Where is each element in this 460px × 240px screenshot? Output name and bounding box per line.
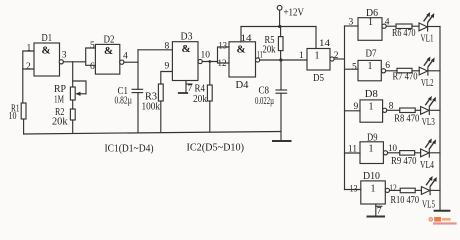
svg-text:D3: D3	[181, 31, 193, 43]
svg-text:0.022µ: 0.022µ	[255, 96, 274, 107]
gate D2	[95, 34, 124, 75]
wire D10 out	[390, 189, 401, 191]
wire to R4	[209, 62, 211, 86]
svg-text:VL4: VL4	[420, 160, 435, 171]
resistor R9	[391, 151, 417, 167]
resistor R2	[52, 107, 75, 128]
ground symbol under C8	[273, 140, 291, 142]
svg-text:20k: 20k	[193, 94, 208, 105]
gate D6	[358, 7, 386, 40]
wire R6 to LED	[412, 25, 419, 27]
wire bus to D9	[345, 152, 361, 154]
wire C8 to ground	[280, 93, 282, 141]
wire R4 to rail	[209, 101, 211, 132]
wire node to C8	[280, 60, 282, 90]
svg-text:10: 10	[9, 111, 17, 122]
svg-text:10: 10	[201, 51, 211, 61]
wire D4 output node	[260, 59, 307, 61]
svg-text:6: 6	[90, 62, 95, 72]
svg-text:R9 470: R9 470	[391, 156, 417, 167]
svg-text:3: 3	[62, 51, 67, 61]
ground rail bottom left	[24, 132, 281, 135]
wire D4 pin 14 to rail	[240, 27, 242, 42]
ground symbol right rail	[435, 210, 450, 212]
svg-text:20k: 20k	[52, 117, 68, 128]
wire rail to D5 pin 14	[315, 27, 317, 49]
wire D6 out	[386, 25, 396, 27]
svg-text:1: 1	[27, 44, 32, 54]
svg-text:7: 7	[377, 206, 382, 216]
node R4 junction	[208, 60, 211, 63]
svg-text:R6 470: R6 470	[392, 28, 416, 39]
wire R2 to rail	[72, 120, 74, 133]
wire bus to D8	[345, 110, 361, 112]
junction dot node	[279, 58, 282, 61]
wire to D3 pin 8	[138, 49, 172, 51]
svg-text:D9: D9	[367, 131, 378, 143]
wire R7 to LED	[412, 70, 419, 72]
wire R9 to LED	[415, 152, 421, 154]
svg-text:R8 470: R8 470	[394, 113, 419, 124]
svg-text:100k: 100k	[142, 101, 161, 112]
svg-text:VL3: VL3	[422, 117, 435, 128]
node D1 out to RP	[72, 62, 74, 87]
svg-text:1: 1	[368, 17, 373, 28]
wire C1 node vertical	[137, 50, 139, 90]
wire D1 inputs to R1	[22, 69, 24, 103]
svg-text:0.82µ: 0.82µ	[115, 96, 133, 107]
svg-text:R4: R4	[195, 84, 206, 95]
gate D3	[172, 31, 202, 81]
svg-text:5: 5	[352, 62, 357, 72]
svg-text:D10: D10	[363, 170, 380, 182]
svg-text:1M: 1M	[54, 95, 64, 106]
wire R3 to rail	[160, 101, 162, 132]
svg-text:5: 5	[90, 41, 95, 51]
wire R10 to LED	[415, 189, 421, 191]
svg-text:&: &	[182, 43, 191, 55]
right rail	[439, 27, 441, 211]
bus vertical	[344, 26, 346, 190]
capacitor C8	[255, 85, 287, 107]
wire VL4 to right rail	[429, 152, 440, 154]
gate D5	[307, 49, 334, 85]
D3 pin 7 ground	[179, 81, 193, 94]
potentiometer RP 1M	[54, 81, 86, 106]
LED VL4	[420, 138, 436, 171]
wire D1 output	[63, 61, 85, 63]
resistor R3	[142, 84, 164, 112]
wire R1 to ground rail	[23, 119, 25, 134]
wire R5 to node	[280, 51, 282, 60]
wire D7 out	[386, 70, 397, 72]
resistor R5	[263, 35, 284, 56]
svg-text:14: 14	[241, 34, 252, 44]
svg-text:VL2: VL2	[421, 78, 434, 89]
svg-text:1: 1	[369, 143, 374, 154]
LED VL5	[421, 176, 436, 211]
LED VL2	[419, 57, 434, 89]
wire D1 input bracket	[23, 51, 34, 69]
capacitor C1	[115, 86, 143, 107]
LED VL1	[419, 12, 434, 45]
svg-text:D1: D1	[42, 32, 53, 44]
wire VL1 to right rail	[428, 26, 440, 28]
wire C1 to rail	[137, 93, 139, 133]
svg-text:6: 6	[385, 61, 390, 71]
svg-text:9: 9	[165, 62, 170, 72]
gate D10	[361, 170, 390, 204]
svg-text:D2: D2	[104, 34, 115, 46]
wire VL3 to right rail	[429, 109, 440, 111]
resistor R6	[392, 24, 416, 39]
svg-text:RP: RP	[54, 84, 66, 95]
svg-text:&: &	[104, 45, 113, 57]
wire D9 out	[388, 152, 400, 154]
svg-text:VL1: VL1	[421, 34, 434, 45]
svg-text:1: 1	[368, 61, 373, 72]
gate D1	[34, 32, 63, 76]
resistor R1	[9, 103, 27, 122]
svg-text:8: 8	[165, 42, 170, 52]
svg-text:1: 1	[315, 51, 320, 62]
resistor R7	[393, 68, 418, 82]
wire VL2 to right rail	[428, 70, 440, 72]
svg-text:14: 14	[319, 39, 330, 49]
wire bus to D10	[345, 189, 361, 191]
+12V supply rail	[241, 26, 316, 28]
svg-text:VL5: VL5	[422, 200, 435, 211]
wire D3 pin 9 to R3	[161, 72, 173, 85]
wire D5 output to bus	[334, 58, 344, 60]
wire D4 input bracket	[218, 47, 230, 63]
svg-text:R7 470: R7 470	[393, 71, 418, 82]
svg-text:1: 1	[369, 101, 374, 112]
svg-text:12: 12	[389, 184, 397, 194]
svg-text:D5: D5	[313, 72, 324, 84]
wire bus to D6	[345, 25, 359, 27]
svg-text:2: 2	[26, 62, 31, 72]
+12V terminal	[277, 5, 304, 26]
wire D2 output	[124, 61, 138, 63]
svg-text:&: &	[237, 44, 246, 56]
wire R8 to LED	[415, 109, 420, 111]
wire D8 out	[387, 109, 400, 111]
svg-text:D7: D7	[366, 48, 377, 60]
svg-text:7: 7	[188, 84, 193, 94]
svg-text:20k: 20k	[263, 44, 277, 55]
svg-text:D8: D8	[365, 88, 378, 100]
gate D4	[229, 42, 260, 91]
svg-text:1: 1	[299, 51, 304, 61]
wire VL5 to right rail	[430, 189, 440, 191]
svg-text:4: 4	[123, 52, 128, 62]
wire bus to D7	[345, 68, 359, 70]
D10 pin 7 ground	[368, 204, 385, 217]
resistor R4	[193, 84, 212, 106]
wire rail to R5	[280, 27, 282, 37]
svg-text:+12V: +12V	[284, 6, 305, 18]
gate D9	[360, 131, 388, 163]
svg-text:IC2(D5~D10): IC2(D5~D10)	[187, 141, 245, 153]
gate D7	[358, 48, 386, 81]
svg-text:C8: C8	[259, 85, 270, 96]
gate D8	[360, 88, 387, 122]
svg-text:1: 1	[371, 183, 376, 194]
svg-text:&: &	[42, 45, 51, 57]
junction dot rail	[278, 25, 281, 28]
resistor R10	[391, 188, 420, 206]
wire RP to R2	[72, 100, 74, 109]
resistor R8	[394, 108, 419, 124]
svg-text:12: 12	[218, 59, 227, 69]
svg-text:IC1(D1~D4): IC1(D1~D4)	[105, 142, 154, 154]
wire D3 output	[202, 61, 217, 63]
LED VL3	[421, 96, 436, 128]
svg-text:R10 470: R10 470	[391, 195, 420, 206]
svg-text:D4: D4	[236, 79, 249, 91]
wire D2 input bracket	[86, 48, 96, 65]
watermark logo	[429, 217, 457, 225]
